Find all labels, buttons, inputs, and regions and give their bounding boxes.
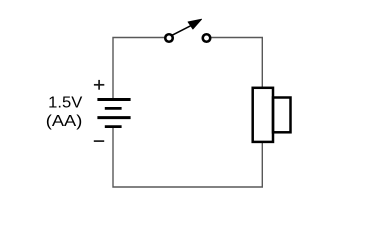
battery plus sign [94,80,104,90]
switch S1 arrowhead [188,19,202,29]
battery minus sign [94,140,104,142]
switch S1 actuator arm [172,24,193,35]
battery BT1 plate short bottom [105,125,122,128]
wire speaker bottom to battery bottom [113,127,262,188]
switch S1 right contact [203,34,211,42]
wire switch right contact to speaker top [211,38,262,88]
speaker LS1 body [253,88,273,142]
battery BT1 plate short [105,107,122,110]
wire top-left to switch left contact [113,38,164,99]
svg-text:1.5V: 1.5V [48,94,83,111]
switch S1 left contact [165,34,173,42]
svg-text:(AA): (AA) [46,113,83,130]
speaker LS1 magnet [273,98,291,133]
battery BT1 plate long [97,116,130,119]
battery BT1 plate long top [97,98,130,101]
